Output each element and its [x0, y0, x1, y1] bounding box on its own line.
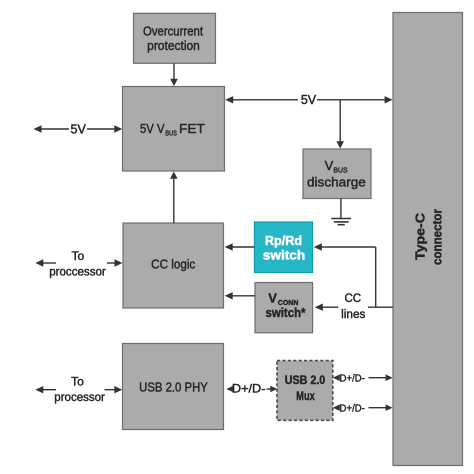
svg-text:5V: 5V	[71, 123, 87, 137]
block U7 VCONN switch	[255, 283, 313, 333]
svg-text:CC: CC	[344, 293, 361, 305]
svg-text:D+/D-: D+/D-	[340, 403, 366, 415]
svg-text:CC logic: CC logic	[151, 256, 196, 271]
node CC lines label	[341, 293, 365, 321]
wire VCONN switch to CC logic with arrow	[225, 292, 255, 299]
wire D+/D- Mux to Type-C lower double arrow	[333, 404, 393, 411]
block U6 Rp/Rd switch	[254, 222, 312, 273]
wire To processor double arrow (PHY)	[35, 386, 122, 393]
svg-text:connector: connector	[429, 209, 444, 265]
wire D+/D- PHY to Mux double arrow	[226, 386, 277, 393]
svg-text:USB 2.0: USB 2.0	[285, 375, 326, 387]
svg-text:5V V: 5V V	[140, 121, 165, 136]
svg-text:Rp/Rd: Rp/Rd	[265, 233, 302, 248]
wire CC lines from Type-C: horizontal into VCONN switch	[315, 304, 393, 311]
svg-text:switch*: switch*	[266, 305, 307, 320]
svg-text:Overcurrent: Overcurrent	[143, 23, 203, 38]
block U5 Type-C connector	[393, 13, 463, 466]
svg-text:BUS: BUS	[165, 129, 177, 138]
svg-text:proccessor: proccessor	[49, 265, 106, 279]
wire D+/D- Mux to Type-C upper double arrow	[333, 374, 393, 381]
svg-text:5V: 5V	[301, 93, 317, 107]
wire overcurrent to FET with arrow	[170, 64, 178, 87]
wire CC lines branch up into Rp/Rd switch	[314, 243, 376, 307]
block U2 5V VBUS FET	[123, 87, 225, 172]
block U4 CC logic	[123, 223, 224, 308]
svg-text:protection: protection	[147, 38, 200, 53]
svg-text:Mux: Mux	[296, 391, 315, 403]
wire branch to VBUS discharge	[336, 100, 344, 149]
svg-text:switch: switch	[263, 248, 306, 263]
svg-text:BUS: BUS	[333, 166, 347, 175]
wire CC logic to FET with arrow	[170, 172, 178, 224]
wire 5V FET to Type-C double arrow	[225, 96, 392, 103]
ground	[331, 199, 351, 225]
svg-text:lines: lines	[341, 309, 365, 321]
svg-text:D+/D-: D+/D-	[340, 373, 366, 385]
block U1 Overcurrent protection	[134, 13, 216, 63]
wire 5V left double arrow	[34, 125, 123, 132]
svg-text:V: V	[268, 291, 277, 306]
svg-text:discharge: discharge	[307, 174, 366, 189]
svg-text:To: To	[72, 249, 85, 263]
svg-text:To: To	[71, 375, 84, 389]
svg-text:USB 2.0 PHY: USB 2.0 PHY	[139, 379, 208, 394]
node To proccessor label (upper)	[49, 249, 106, 279]
svg-text:D+/D-: D+/D-	[232, 382, 266, 396]
svg-text:processor: processor	[54, 390, 105, 404]
wire To proccessor double arrow (CC logic)	[35, 259, 122, 266]
node To processor label (lower)	[54, 375, 105, 404]
block U3 VBUS discharge	[303, 149, 371, 199]
svg-text:V: V	[325, 158, 334, 173]
wire Rp/Rd switch to CC logic with arrow	[225, 243, 255, 250]
svg-text:Type-C: Type-C	[413, 212, 428, 260]
block U9 USB 2.0 Mux	[277, 361, 333, 421]
block U8 USB 2.0 PHY	[123, 344, 224, 430]
svg-text:FET: FET	[179, 121, 205, 136]
